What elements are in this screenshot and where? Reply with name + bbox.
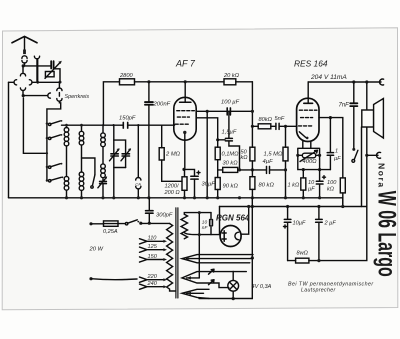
svg-text:300pF: 300pF [156,213,173,219]
wire ext speaker [367,154,378,156]
node b2 [80,196,83,199]
trimmer box [45,61,62,79]
transformer secondary HV [181,213,220,278]
resistor 100k [340,178,345,207]
svg-text:400Ω: 400Ω [303,159,318,165]
node gridL1 [65,124,68,127]
svg-text:20 kΩ: 20 kΩ [223,73,240,79]
wire hv bus2 [220,206,367,208]
resistor 30k [223,167,238,172]
tube AF7 U1 [174,82,196,140]
svg-text:0,25A: 0,25A [103,229,118,235]
socket cross bottom hook [20,88,25,96]
capacitor 4uF [267,166,270,173]
svg-text:2 µF: 2 µF [324,221,337,227]
wire pot row [298,155,331,169]
tuning gang bracket [114,140,126,154]
switch contact 2 [49,134,63,140]
antenna plug pair [22,56,27,66]
svg-text:90 kΩ: 90 kΩ [223,183,239,189]
node m1 [139,222,142,225]
socket cross left hook [9,80,17,85]
wire vertical x23.4 [22,98,24,153]
node p2 [318,154,321,157]
coil L2b [79,172,84,198]
node b10 [216,196,219,199]
node h4 [341,205,344,208]
wire cathode bracket [298,148,320,155]
node pd1 [251,110,254,113]
node hv top [198,211,201,214]
node grid1 [102,124,104,126]
svg-text:10: 10 [202,220,208,226]
svg-text:5nF: 5nF [275,116,285,122]
switch contact 4 [49,176,64,182]
tap 240 [140,284,168,289]
node hv1 [251,256,254,259]
node t2 [365,80,368,83]
svg-text:µF: µF [334,156,341,162]
wire rectifier left pin [219,207,221,235]
svg-text:1200/: 1200/ [165,184,180,190]
wire right rail [366,82,368,207]
svg-text:Nora: Nora [377,163,387,189]
resistor 20k [224,79,236,85]
coil L2a [79,125,84,172]
wire bus drop [342,198,344,207]
socket cross right hook [29,80,60,85]
node b5 [137,196,140,199]
node ant cross [36,81,39,84]
wire band switch vertical [46,124,48,181]
node S5 [46,179,48,181]
svg-text:Sperrkreis: Sperrkreis [65,94,90,100]
node r1 [317,259,320,262]
wire x207 down [206,111,208,198]
svg-text:200 Ω: 200 Ω [164,190,181,196]
coil L1a [64,125,69,176]
capacitor 10nF [210,213,213,235]
node b11 [238,196,241,199]
node y170a [238,168,241,171]
sperrkreis link plug pair [47,82,62,124]
svg-text:80kΩ: 80kΩ [259,117,273,123]
node sp1 [365,154,368,157]
svg-text:CA: CA [135,182,141,187]
arrow tap b [209,280,215,285]
capacitor 300pF [146,198,153,223]
wire tuning gang bottom [114,168,126,198]
node pr1 [302,168,305,171]
node A1 junction [22,64,25,67]
socket sperrkreis left [48,93,51,98]
node g3a [216,138,219,141]
wire RES anode top [308,81,381,83]
node b12 [251,196,254,199]
node rg2 [284,168,287,171]
wire RES g2 [319,118,343,178]
node b13 [284,196,287,199]
capacitor 10uF cathode [316,155,325,198]
transformer core [176,208,178,298]
svg-text:125: 125 [148,244,158,250]
svg-text:1: 1 [335,149,338,155]
wire antenna top horizontal [23,65,50,67]
resistor 80k lower [250,177,255,190]
svg-text:30 kΩ: 30 kΩ [223,161,239,167]
node sc1 [206,110,209,113]
tube RES164 cathode leads [303,142,311,149]
node gridL2 [80,124,83,127]
node pr2 [318,168,321,171]
tap 110 [140,239,168,244]
wire anode supply AF7 [103,82,252,125]
wire psu rail [288,207,367,261]
node b3 [101,196,104,199]
wire cathode cap link [184,169,195,175]
svg-text:0,1MΩ: 0,1MΩ [222,151,240,157]
node top1 [147,80,150,83]
node p1 [296,154,299,157]
svg-text:kΩ: kΩ [241,155,249,161]
capacitor 100uF [227,108,230,115]
svg-text:7nF: 7nF [339,103,350,109]
transformer heater winding 2 [182,272,246,288]
wire RES grid [252,125,297,127]
svg-text:80 kΩ: 80 kΩ [259,182,275,188]
wire horizontal y153.3 [23,152,47,154]
svg-text:204 V 11mA: 204 V 11mA [310,74,347,81]
tap 150 [140,257,168,262]
svg-text:RGN 564: RGN 564 [216,214,250,223]
node lamp [232,297,235,300]
svg-text:1,5 MΩ: 1,5 MΩ [264,152,283,158]
switch contact 5 [91,175,95,188]
svg-text:W 06 Largo: W 06 Largo [372,191,400,277]
resistor 50k [250,147,255,161]
svg-text:110: 110 [148,236,158,242]
arrow tap a [209,269,215,274]
node y170b [251,168,254,171]
coil L3a [101,125,106,164]
svg-text:20 W: 20 W [89,247,104,253]
svg-text:150: 150 [148,254,158,260]
node h2 [286,205,289,208]
svg-text:1 kΩ: 1 kΩ [288,183,300,189]
svg-text:kΩ: kΩ [327,187,335,193]
wire grid bus [62,124,175,126]
node b9 [206,196,209,199]
node b1 [65,196,68,199]
svg-text:30µF: 30µF [202,181,216,187]
wire rectifier anode out [241,207,249,235]
node anode [247,205,250,208]
capacitor 10uF psu [284,207,291,261]
svg-text:Lautsprecher: Lautsprecher [301,288,336,294]
resistor 1k [301,170,306,198]
transformer primary winding [167,224,176,292]
node A2 junction [22,94,25,97]
svg-text:10µF: 10µF [293,221,306,227]
tube RES164 U2 [297,82,319,142]
node g2a [329,116,332,119]
node h1 [251,205,254,208]
wire left vertical [8,82,10,198]
node rg1 [284,125,287,128]
resistor 80k coupling [258,124,271,129]
plug link CA [136,125,141,198]
svg-text:AF 7: AF 7 [175,59,196,69]
node b14 [302,196,305,199]
coil L1b [64,176,69,197]
wire hv down [251,198,253,299]
svg-text:2800: 2800 [119,73,133,79]
resistor 2M [159,125,182,181]
resistor 0.1M [215,140,220,170]
svg-text:4µF: 4µF [263,159,274,165]
potentiometer 400 [298,150,320,161]
node b8 [193,196,196,199]
socket speaker bottom [377,152,381,158]
tap 125 [140,247,168,252]
wire tuning cap feed [113,125,115,153]
node pd2 [251,125,254,128]
capacitor 150pF [123,122,127,128]
wire sperrkreis horizontal [23,95,48,97]
node b4 [112,196,115,199]
node grid3 [137,124,139,126]
wire L2 tap [82,158,95,175]
wire AF7 screen [196,110,252,112]
svg-text:1,5µF: 1,5µF [222,130,237,136]
variable capacitor C-tune1 [110,148,120,167]
node b6 [147,196,150,199]
svg-text:240: 240 [147,281,158,287]
wire vertical x37.7 [37,59,39,83]
node b7 [183,196,186,199]
capacitor 30uF electrolytic [191,171,200,198]
resistor 2800 [120,79,135,85]
resistor 1.5M [283,126,288,198]
capacitor 5nF [276,123,279,129]
wire main bus [9,197,343,199]
capacitor 2uF [316,207,323,261]
switch contact 1 [49,120,63,126]
wire AF7 g3 [196,118,218,140]
svg-text:100: 100 [327,180,337,186]
node S1 [46,122,48,124]
wire mains to primary [141,222,170,224]
switch mains [125,220,139,225]
node h3 [317,205,320,208]
svg-text:8wΩ: 8wΩ [297,251,309,257]
antenna [12,36,37,54]
transformer heater winding 3 [182,289,209,298]
node ant right [59,81,62,84]
transformer heater winding 1 [182,255,253,263]
resistor 8ohm [296,258,309,263]
tap 220 [140,277,168,282]
svg-text:RES 164: RES 164 [294,59,328,69]
capacitor 1.5uF [218,111,240,170]
loudspeaker LS [362,99,384,139]
svg-text:10: 10 [308,180,315,186]
node grid2 [112,124,114,126]
node S4 [46,166,48,168]
node t1 [352,80,355,83]
capacitor 7nF [350,82,357,148]
wire plate dropper vertical [251,82,253,198]
switch contact 3 [49,163,63,169]
fuse 0.25A [89,221,125,226]
socket E [34,56,39,82]
capacitor 1uF [327,118,333,170]
resistor 90k [215,170,220,198]
node S2 [46,137,48,139]
node top2 [184,80,187,83]
svg-text:4V 0,3A: 4V 0,3A [252,284,272,290]
svg-text:2 MΩ: 2 MΩ [165,151,181,157]
wire y170 row [218,169,286,171]
node hv pin [198,233,201,236]
svg-text:µF: µF [308,187,315,193]
svg-text:200nF: 200nF [153,102,171,108]
trimmer capacitor antenna [51,61,60,82]
variable capacitor C-tune2 [121,148,131,167]
node m2 [148,222,151,225]
svg-text:220: 220 [147,274,158,280]
trimmer capacitor padder [98,176,107,197]
node b15 [318,196,321,199]
resistor 1200/200 [182,169,187,197]
wire heater bottom [199,298,252,300]
capacitor 200nF [145,82,153,198]
wire cathode [184,134,186,169]
socket speaker top [380,79,384,85]
svg-text:100 µF: 100 µF [221,100,240,106]
node k1 [182,168,185,171]
socket cross top hook [20,66,25,76]
tube RGN564 U3 [220,226,241,247]
switch tone [352,148,358,162]
node S3 [46,152,48,154]
svg-text:150pF: 150pF [119,116,136,122]
dial lamp [228,271,239,298]
wire speaker left down [361,127,363,207]
wire mains lead 2 [89,277,137,280]
coil L3b [101,164,106,178]
